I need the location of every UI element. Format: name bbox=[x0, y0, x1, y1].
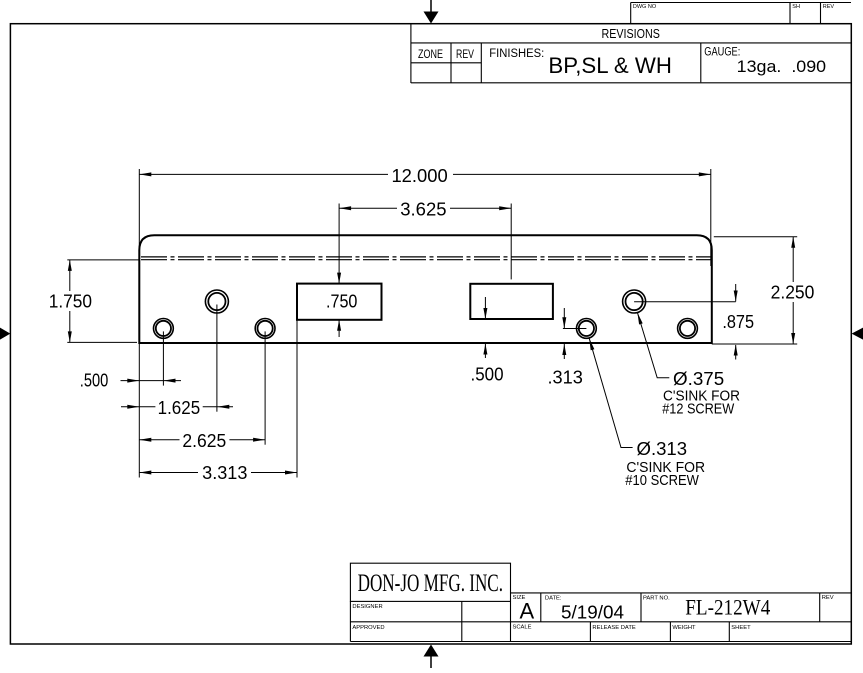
svg-text:FL-212W4: FL-212W4 bbox=[685, 595, 770, 620]
svg-text:DATE:: DATE: bbox=[545, 596, 562, 602]
svg-text:.500: .500 bbox=[80, 370, 109, 391]
svg-text:WEIGHT: WEIGHT bbox=[672, 625, 696, 631]
svg-text:REVISIONS: REVISIONS bbox=[602, 26, 661, 41]
svg-text:13ga. .090: 13ga. .090 bbox=[737, 57, 826, 76]
svg-text:PART NO.: PART NO. bbox=[643, 595, 670, 601]
svg-text:A: A bbox=[520, 599, 535, 624]
svg-text:3.625: 3.625 bbox=[400, 198, 446, 219]
svg-text:DWG NO: DWG NO bbox=[633, 4, 657, 10]
svg-text:APPROVED: APPROVED bbox=[352, 625, 384, 631]
svg-text:.875: .875 bbox=[722, 311, 754, 332]
svg-text:DON-JO MFG. INC.: DON-JO MFG. INC. bbox=[358, 570, 503, 597]
svg-text:REV: REV bbox=[823, 4, 835, 10]
svg-text:ZONE: ZONE bbox=[418, 49, 443, 61]
svg-text:BP,SL & WH: BP,SL & WH bbox=[548, 53, 672, 78]
svg-text:Ø.375: Ø.375 bbox=[673, 368, 724, 389]
svg-text:REV: REV bbox=[456, 49, 474, 61]
svg-text:SCALE: SCALE bbox=[513, 624, 532, 630]
svg-text:SHEET: SHEET bbox=[731, 625, 751, 631]
svg-text:GAUGE:: GAUGE: bbox=[704, 47, 740, 59]
svg-text:12.000: 12.000 bbox=[391, 165, 447, 186]
svg-text:1.625: 1.625 bbox=[158, 397, 201, 418]
svg-text:FINISHES:: FINISHES: bbox=[489, 48, 544, 60]
svg-text:1.750: 1.750 bbox=[49, 291, 92, 312]
svg-text:.313: .313 bbox=[548, 367, 583, 388]
svg-text:SH: SH bbox=[792, 4, 800, 10]
svg-text:REV: REV bbox=[822, 595, 834, 601]
svg-text:.500: .500 bbox=[471, 364, 504, 385]
svg-text:RELEASE DATE: RELEASE DATE bbox=[592, 625, 636, 631]
svg-text:#10 SCREW: #10 SCREW bbox=[625, 473, 699, 489]
svg-text:#12 SCREW: #12 SCREW bbox=[662, 402, 735, 418]
svg-text:2.250: 2.250 bbox=[771, 281, 815, 302]
svg-text:Ø.313: Ø.313 bbox=[637, 438, 688, 459]
svg-text:3.313: 3.313 bbox=[202, 462, 247, 483]
svg-text:DESIGNER: DESIGNER bbox=[352, 604, 382, 610]
svg-text:5/19/04: 5/19/04 bbox=[561, 603, 624, 623]
svg-text:.750: .750 bbox=[326, 291, 357, 312]
svg-text:2.625: 2.625 bbox=[182, 430, 226, 451]
